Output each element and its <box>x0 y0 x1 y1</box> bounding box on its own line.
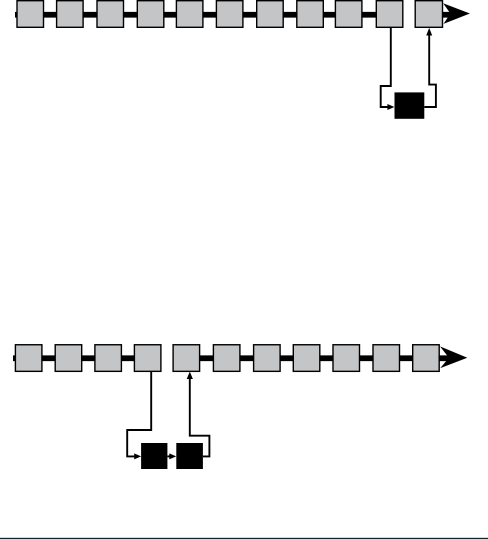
node T1 <box>17 1 44 28</box>
node B11 <box>413 345 440 372</box>
wire: link between the two inserted blocks <box>168 455 170 457</box>
wire: bottom list spine left part (thick) <box>13 355 160 361</box>
bottom page rule (antialias edge) <box>0 536 488 539</box>
node T4 <box>137 1 164 28</box>
wire: connector from node T10 down to inserted block <box>381 28 391 108</box>
wire: top arrow tail stub <box>441 12 453 18</box>
node T10 <box>376 1 403 28</box>
second inserted block (black) bottom diagram <box>176 443 203 469</box>
wire: top list spine (thick) <box>15 12 402 18</box>
arrowhead: top list big stealth arrow <box>443 3 470 24</box>
node T6 <box>216 1 243 28</box>
node B7 <box>254 345 281 372</box>
wire: connector from inserted block up to node T11 <box>424 35 436 107</box>
arrowhead: into inserted block left side <box>387 104 394 110</box>
node B6 <box>213 345 240 372</box>
node T7 <box>257 1 284 28</box>
node T11 <box>415 1 442 28</box>
arrowhead: into second inserted block left side <box>169 453 176 459</box>
node T5 <box>176 1 203 28</box>
node B1 <box>15 345 42 372</box>
node T3 <box>97 1 124 28</box>
node T2 <box>57 1 84 28</box>
node T9 <box>335 1 362 28</box>
node B3 <box>95 345 122 372</box>
arrowhead: into first inserted block left side <box>134 453 141 459</box>
arrowhead: bottom list big stealth arrow <box>440 346 467 368</box>
wire: bottom list spine right part (thick) <box>174 355 449 361</box>
inserted block (black) top diagram <box>395 92 425 118</box>
wire: connector from second inserted block up to node B5 <box>190 378 210 456</box>
arrowhead: into node B5 bottom <box>187 372 193 379</box>
arrowhead: into node T11 bottom <box>426 28 432 36</box>
wire: connector from node B4 down to first inserted block <box>127 371 151 456</box>
node B4 <box>134 345 161 372</box>
node T8 <box>297 1 324 28</box>
node B5 <box>173 345 200 372</box>
node B10 <box>373 345 400 372</box>
node B9 <box>333 345 360 372</box>
bottom page rule (dark core) <box>0 538 488 539</box>
first inserted block (black) bottom diagram <box>141 443 167 469</box>
node B2 <box>55 345 81 372</box>
node B8 <box>293 345 320 372</box>
